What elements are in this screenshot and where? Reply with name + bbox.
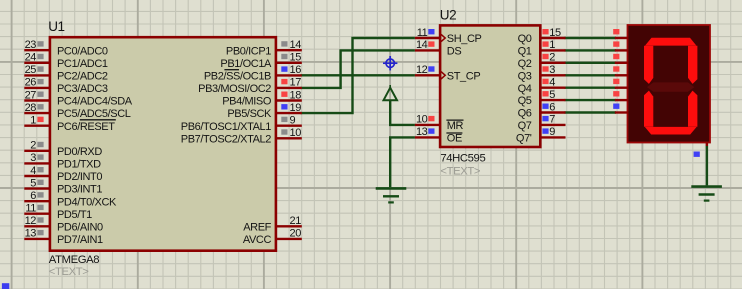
svg-text:MR: MR [447, 120, 464, 132]
svg-text:9: 9 [290, 115, 296, 127]
svg-text:10: 10 [290, 127, 302, 139]
svg-text:PB0/ICP1: PB0/ICP1 [226, 45, 271, 57]
svg-text:10: 10 [416, 114, 428, 126]
svg-text:Q7: Q7 [518, 120, 532, 132]
svg-text:13: 13 [25, 228, 37, 240]
svg-text:ST_CP: ST_CP [447, 70, 481, 82]
svg-text:PC2/ADC2: PC2/ADC2 [57, 71, 108, 83]
svg-text:74HC595: 74HC595 [440, 153, 485, 165]
svg-text:AREF: AREF [243, 221, 271, 233]
svg-text:PB1/OC1A: PB1/OC1A [220, 58, 272, 70]
svg-text:6: 6 [549, 101, 555, 113]
svg-text:PD1/TXD: PD1/TXD [57, 159, 101, 171]
svg-text:OE: OE [447, 133, 462, 145]
svg-text:PD2/INT0: PD2/INT0 [57, 171, 102, 183]
svg-text:13: 13 [416, 126, 428, 138]
svg-text:17: 17 [290, 77, 302, 89]
svg-text:15: 15 [549, 27, 561, 39]
svg-text:15: 15 [290, 52, 302, 64]
svg-text:PC3/ADC3: PC3/ADC3 [57, 83, 108, 95]
svg-text:PC6/RESET: PC6/RESET [57, 121, 115, 133]
svg-text:Q3: Q3 [518, 70, 532, 82]
svg-text:U1: U1 [48, 19, 64, 34]
svg-text:16: 16 [290, 64, 302, 76]
svg-text:ATMEGA8: ATMEGA8 [49, 254, 99, 266]
svg-text:PC4/ADC4/SDA: PC4/ADC4/SDA [57, 96, 133, 108]
svg-text:5: 5 [30, 177, 36, 189]
svg-text:PC1/ADC1: PC1/ADC1 [57, 58, 108, 70]
svg-text:PD4/T0/XCK: PD4/T0/XCK [57, 196, 117, 208]
svg-text:4: 4 [30, 165, 36, 177]
svg-text:12: 12 [416, 64, 428, 76]
svg-text:Q2: Q2 [518, 58, 532, 70]
svg-text:PD6/AIN0: PD6/AIN0 [57, 221, 103, 233]
svg-text:21: 21 [290, 215, 302, 227]
svg-text:23: 23 [25, 39, 37, 51]
svg-text:7: 7 [549, 114, 555, 126]
svg-text:PD7/AIN1: PD7/AIN1 [57, 234, 103, 246]
svg-text:Q6: Q6 [518, 108, 532, 120]
svg-text:SH_CP: SH_CP [447, 33, 482, 45]
svg-text:20: 20 [290, 228, 302, 240]
svg-text:1: 1 [549, 39, 555, 51]
svg-text:2: 2 [30, 140, 36, 152]
svg-text:<TEXT>: <TEXT> [440, 165, 480, 177]
svg-text:3: 3 [30, 152, 36, 164]
svg-text:U2: U2 [440, 7, 456, 22]
svg-text:PB6/TOSC1/XTAL1: PB6/TOSC1/XTAL1 [181, 121, 271, 133]
svg-text:2: 2 [549, 52, 555, 64]
svg-text:18: 18 [290, 89, 302, 101]
svg-text:14: 14 [290, 39, 302, 51]
svg-text:11: 11 [417, 27, 428, 39]
svg-text:4: 4 [549, 77, 555, 89]
svg-text:PB5/SCK: PB5/SCK [227, 108, 272, 120]
svg-text:Q5: Q5 [518, 95, 532, 107]
svg-text:PD5/T1: PD5/T1 [57, 209, 92, 221]
svg-text:5: 5 [549, 89, 555, 101]
svg-text:PD0/RXD: PD0/RXD [57, 146, 102, 158]
svg-text:AVCC: AVCC [243, 234, 272, 246]
svg-text:Q1: Q1 [518, 46, 532, 58]
svg-text:PC0/ADC0: PC0/ADC0 [57, 45, 108, 57]
svg-text:PB7/TOSC2/XTAL2: PB7/TOSC2/XTAL2 [181, 133, 271, 145]
svg-text:6: 6 [30, 190, 36, 202]
svg-text:PB3/MOSI/OC2: PB3/MOSI/OC2 [198, 83, 271, 95]
svg-text:12: 12 [25, 215, 37, 227]
svg-text:<TEXT>: <TEXT> [49, 266, 89, 278]
svg-text:24: 24 [25, 52, 37, 64]
svg-text:27: 27 [25, 89, 37, 101]
svg-text:PC5/ADC5/SCL: PC5/ADC5/SCL [57, 108, 131, 120]
svg-text:PB2/SS/OC1B: PB2/SS/OC1B [204, 71, 271, 83]
svg-text:1: 1 [30, 115, 36, 127]
svg-text:26: 26 [25, 77, 37, 89]
svg-text:PB4/MISO: PB4/MISO [222, 96, 272, 108]
svg-text:9: 9 [549, 126, 555, 138]
svg-text:25: 25 [25, 64, 37, 76]
svg-text:Q0: Q0 [518, 33, 532, 45]
svg-text:DS: DS [447, 46, 462, 58]
svg-text:19: 19 [290, 102, 302, 114]
svg-text:Q7': Q7' [516, 133, 532, 145]
svg-text:Q4: Q4 [518, 83, 532, 95]
svg-text:PD3/INT1: PD3/INT1 [57, 184, 102, 196]
svg-text:14: 14 [416, 39, 428, 51]
svg-text:3: 3 [549, 64, 555, 76]
svg-text:28: 28 [25, 102, 37, 114]
svg-text:11: 11 [25, 203, 36, 215]
